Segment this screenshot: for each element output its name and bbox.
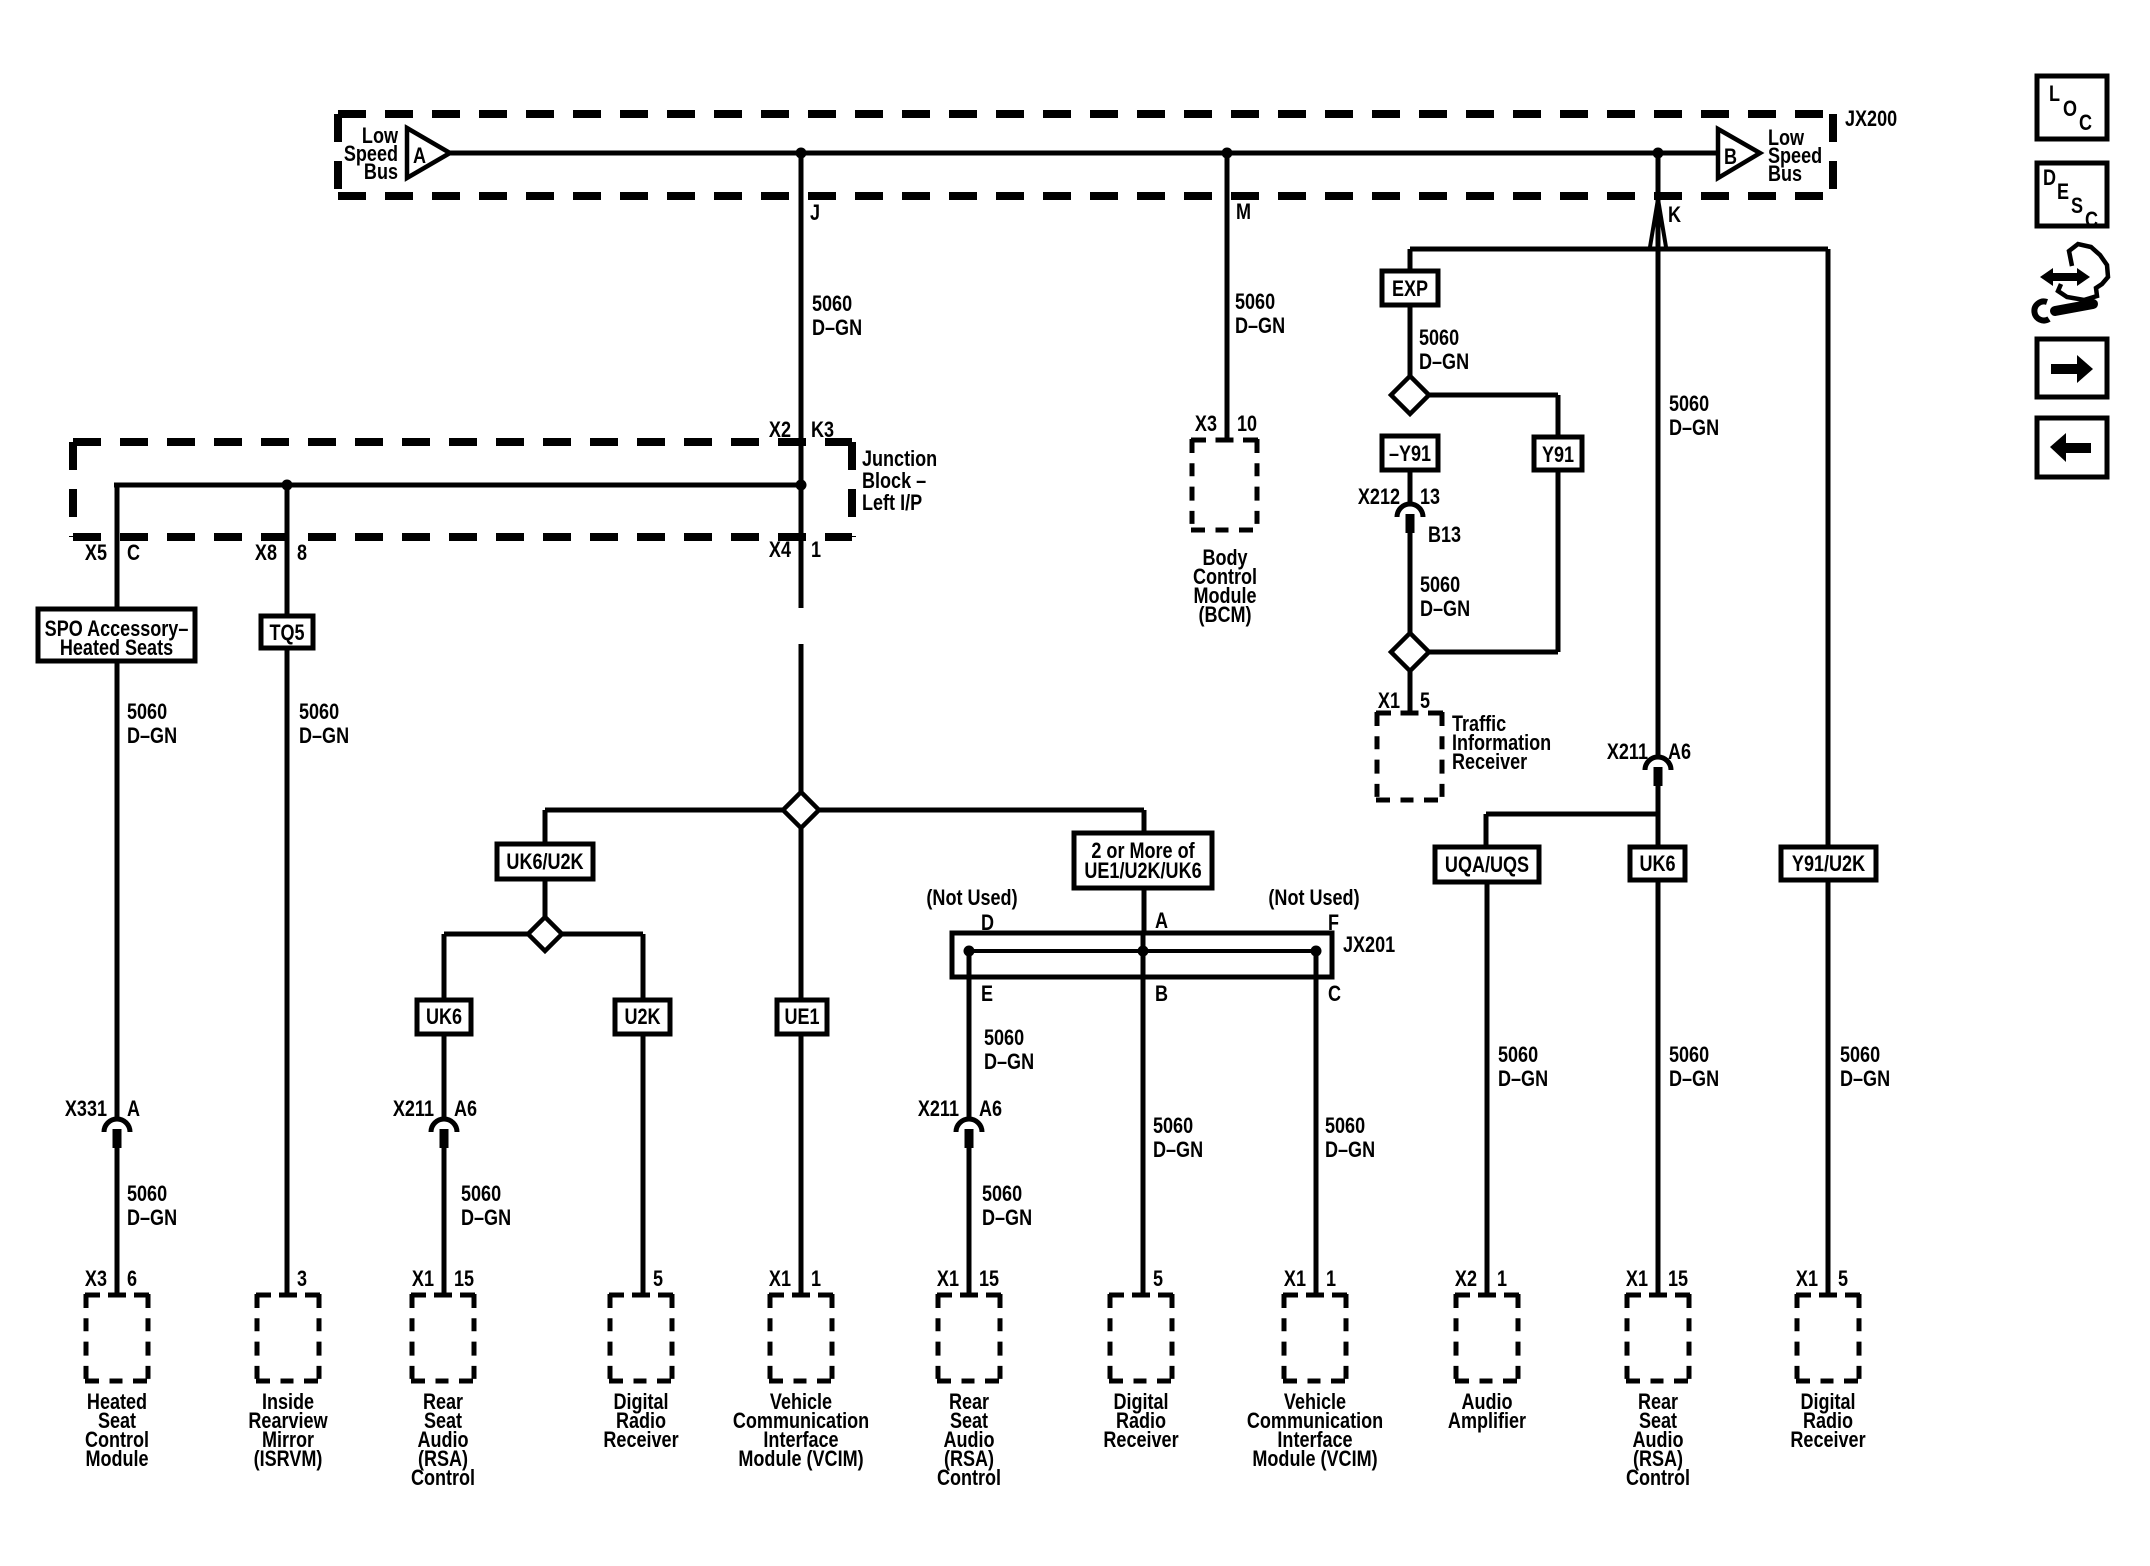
wire X8 drop to TQ5 box <box>285 485 290 616</box>
wire lower splice horizontal <box>444 932 643 937</box>
off-page triangle A <box>407 128 450 178</box>
svg-text:10: 10 <box>1237 412 1257 436</box>
svg-text:Control: Control <box>411 1466 475 1490</box>
wire label 5060 D-GN (B column) <box>1153 1114 1203 1162</box>
wire label 5060 D-GN (X5 column) <box>127 700 177 748</box>
pin label 3 (ISRVM) <box>297 1267 307 1291</box>
wire to Heated Seat Control Module <box>115 1148 120 1296</box>
svg-text:O: O <box>2063 97 2077 121</box>
svg-text:TQ5: TQ5 <box>269 621 304 645</box>
svg-text:Receiver: Receiver <box>603 1428 678 1452</box>
svg-text:5060: 5060 <box>1153 1114 1193 1138</box>
wire label 5060 D-GN (RSA middle segment) <box>982 1182 1032 1230</box>
svg-text:5060: 5060 <box>1498 1043 1538 1067</box>
option box UK6 (left) <box>417 1000 471 1034</box>
svg-text:X1: X1 <box>937 1267 959 1291</box>
splice diamond (to Traffic Information Receiver) <box>1391 633 1429 671</box>
splice diamond (UK6/U2K split) <box>528 917 562 951</box>
svg-text:Heated Seats: Heated Seats <box>60 636 173 660</box>
svg-text:5060: 5060 <box>127 700 167 724</box>
wire down to Y91 box <box>1556 395 1561 437</box>
svg-text:X1: X1 <box>1796 1267 1818 1291</box>
splice diamond (EXP branch) <box>1391 376 1429 414</box>
inline connector X212 pin 13 <box>1397 504 1423 533</box>
svg-text:UE1/U2K/UK6: UE1/U2K/UK6 <box>1084 859 1201 883</box>
svg-text:D–GN: D–GN <box>127 724 177 748</box>
module Digital Radio Receiver (right) <box>1796 1294 1860 1382</box>
svg-text:5060: 5060 <box>1840 1043 1880 1067</box>
svg-text:X3: X3 <box>85 1267 107 1291</box>
svg-text:X211: X211 <box>918 1097 959 1121</box>
svg-text:Left I/P: Left I/P <box>862 491 922 515</box>
wire branch to UQA/UQS <box>1486 812 1658 817</box>
svg-text:D: D <box>2043 166 2056 190</box>
pin labels X1 15 (RSA right) <box>1626 1267 1688 1291</box>
svg-text:5060: 5060 <box>812 292 852 316</box>
svg-text:U2K: U2K <box>624 1005 661 1029</box>
svg-text:B: B <box>1155 982 1168 1006</box>
svg-text:Receiver: Receiver <box>1790 1428 1865 1452</box>
svg-text:E: E <box>981 982 993 1006</box>
svg-text:5: 5 <box>1838 1267 1848 1291</box>
svg-text:5060: 5060 <box>299 700 339 724</box>
wire label 5060 D-GN (Y91/U2K column) <box>1840 1043 1890 1091</box>
junction dot JX201 B <box>1138 946 1149 957</box>
wire label 5060 D-GN (E upper) <box>984 1026 1034 1074</box>
wire down to UK6 box <box>442 934 447 1000</box>
svg-text:X2: X2 <box>1455 1267 1477 1291</box>
option box 2 or More of UE1/U2K/UK6 <box>1074 833 1212 888</box>
svg-text:UE1: UE1 <box>784 1005 819 1029</box>
pin labels X212 13 <box>1358 485 1440 509</box>
svg-text:Y91: Y91 <box>1542 443 1574 467</box>
wire SPO to X331 connector <box>115 661 120 1119</box>
svg-text:B13: B13 <box>1428 523 1461 547</box>
svg-text:X1: X1 <box>1284 1267 1306 1291</box>
svg-text:5060: 5060 <box>1325 1114 1365 1138</box>
svg-text:A: A <box>127 1097 140 1121</box>
svg-text:Receiver: Receiver <box>1452 750 1527 774</box>
svg-text:UK6: UK6 <box>1639 852 1675 876</box>
icon button arrow left <box>2037 418 2107 477</box>
module Heated Seat Control Module <box>85 1294 149 1382</box>
text Low Speed Bus (left) <box>344 124 398 184</box>
wire 2-or-more to JX201 pin A <box>1142 888 1147 933</box>
wire label 5060 D-GN (C column) <box>1325 1114 1375 1162</box>
svg-text:UQA/UQS: UQA/UQS <box>1445 853 1529 877</box>
wire label 5060 D-GN (UQA column) <box>1498 1043 1548 1091</box>
svg-text:D–GN: D–GN <box>299 724 349 748</box>
svg-text:1: 1 <box>1326 1267 1336 1291</box>
svg-text:EXP: EXP <box>1392 277 1428 301</box>
icon button DESC <box>2037 163 2107 232</box>
svg-text:D–GN: D–GN <box>1153 1138 1203 1162</box>
wire to RSA control left <box>442 1148 447 1296</box>
connector JX201 bar <box>952 933 1332 977</box>
svg-text:D–GN: D–GN <box>984 1050 1034 1074</box>
wire to Traffic Information Receiver <box>1408 671 1413 714</box>
wire UK6 to X211 connector <box>442 1034 447 1119</box>
wire JX201 E drop <box>967 951 972 1119</box>
option box UK6 (right column) <box>1630 847 1685 880</box>
pin labels X3 6 <box>85 1267 137 1291</box>
pin labels X2 K3 <box>769 418 834 442</box>
off-page triangle B <box>1718 129 1760 178</box>
svg-text:5060: 5060 <box>984 1026 1024 1050</box>
svg-text:1: 1 <box>811 538 821 562</box>
svg-text:D–GN: D–GN <box>812 316 862 340</box>
wire circuit B13 <box>1408 533 1413 671</box>
svg-text:X5: X5 <box>85 541 107 565</box>
svg-text:Block –: Block – <box>862 469 926 493</box>
wire X5 drop to SPO box <box>115 485 120 609</box>
svg-text:X1: X1 <box>1378 689 1400 713</box>
wire splice horizontal <box>545 808 1144 813</box>
wire label 5060 D-GN (J column) <box>812 292 862 340</box>
option box Y91 (right branch) <box>1534 437 1582 470</box>
wire label 5060 D-GN (EXP column) <box>1419 326 1469 374</box>
module Vehicle Communication Interface Module (left) <box>769 1294 833 1382</box>
svg-text:Junction: Junction <box>862 447 937 471</box>
svg-text:X331: X331 <box>65 1097 107 1121</box>
svg-text:–Y91: –Y91 <box>1389 442 1431 466</box>
pin labels X331 A <box>65 1097 140 1121</box>
wire inside junction block <box>114 483 801 488</box>
pin labels X2 1 (Audio Amplifier) <box>1455 1267 1507 1291</box>
svg-text:5060: 5060 <box>1420 573 1460 597</box>
option box TQ5 <box>261 616 313 648</box>
svg-text:13: 13 <box>1420 485 1440 509</box>
svg-text:Bus: Bus <box>1768 162 1802 186</box>
pin labels X1 15 (RSA middle) <box>937 1267 999 1291</box>
pin labels X1 15 (RSA left) <box>412 1267 474 1291</box>
svg-text:(Not Used): (Not Used) <box>926 886 1017 910</box>
svg-text:C: C <box>2079 111 2092 135</box>
option box -Y91 (EXP column) <box>1382 436 1438 470</box>
junction dot JX201 E <box>964 946 975 957</box>
pin labels X8 8 <box>255 541 307 565</box>
svg-text:UK6: UK6 <box>426 1005 462 1029</box>
junction dot J on bus <box>796 148 807 159</box>
svg-text:A6: A6 <box>979 1097 1002 1121</box>
svg-text:X1: X1 <box>412 1267 434 1291</box>
svg-text:15: 15 <box>454 1267 474 1291</box>
wire Y91 branch down <box>1556 470 1561 652</box>
svg-text:Bus: Bus <box>364 160 398 184</box>
module Vehicle Communication Interface Module (right) <box>1283 1294 1347 1382</box>
pin labels X5 C <box>85 541 140 565</box>
svg-text:(BCM): (BCM) <box>1198 603 1251 627</box>
wire node K (bus down to X211) <box>1656 150 1661 757</box>
svg-text:6: 6 <box>127 1267 137 1291</box>
svg-text:D–GN: D–GN <box>1669 416 1719 440</box>
wire down to U2K box <box>641 934 646 1000</box>
wire to EXP box <box>1408 249 1413 271</box>
wire TQ5 to ISRVM <box>285 648 290 1296</box>
svg-text:5: 5 <box>1420 689 1430 713</box>
pin labels X211 A6 (K column) <box>1607 740 1691 764</box>
module Audio Amplifier <box>1455 1294 1519 1382</box>
text Low Speed Bus (right) <box>1768 126 1822 186</box>
option box SPO Accessory Heated Seats <box>38 609 195 661</box>
wire down to 2-or-more box <box>1142 810 1147 834</box>
icon wrench with arrows <box>2034 244 2108 320</box>
wire UK6/U2K to lower diamond <box>543 879 548 951</box>
wire diamond to UE1 box <box>799 828 804 1000</box>
module Traffic Information Receiver dashed box <box>1376 712 1443 801</box>
wire U2K to Digital Radio Receiver <box>641 1034 646 1296</box>
svg-text:15: 15 <box>979 1267 999 1291</box>
option box EXP <box>1382 271 1438 305</box>
svg-text:D–GN: D–GN <box>982 1206 1032 1230</box>
svg-text:C: C <box>1328 982 1341 1006</box>
pin label 5 (DRR left) <box>653 1267 663 1291</box>
wire down to UK6/U2K box <box>543 810 548 844</box>
svg-text:JX200: JX200 <box>1845 107 1897 131</box>
svg-text:Module (VCIM): Module (VCIM) <box>738 1447 863 1471</box>
svg-text:K: K <box>1668 203 1681 227</box>
wire horizontal EXP / Y91 / Y91-U2K branch <box>1410 247 1828 252</box>
text Body Control Module (BCM) <box>1193 546 1257 627</box>
svg-text:5060: 5060 <box>127 1182 167 1206</box>
pin labels X1 1 (VCIM right) <box>1284 1267 1336 1291</box>
option box UQA/UQS <box>1435 847 1539 882</box>
wire JX201 C drop <box>1314 951 1319 1296</box>
junction dot X4 branch <box>796 480 807 491</box>
junction dot JX201 C <box>1311 946 1322 957</box>
wire K below connector <box>1656 786 1661 847</box>
svg-text:B: B <box>1724 145 1737 169</box>
module Rear Seat Audio RSA Control (middle) <box>937 1294 1001 1382</box>
option box U2K <box>615 1000 670 1034</box>
option box Y91/U2K <box>1781 847 1876 880</box>
module Digital Radio Receiver (middle) <box>1109 1294 1173 1382</box>
wire UE1 to VCIM <box>799 1034 804 1296</box>
icon button LOC <box>2037 76 2107 139</box>
text Traffic Information Receiver <box>1452 712 1551 774</box>
pin labels X1 5 (DRR right) <box>1796 1267 1848 1291</box>
junction dot K on bus <box>1653 148 1664 159</box>
svg-text:E: E <box>2057 180 2069 204</box>
pin labels X4 1 <box>769 538 821 562</box>
wire -Y91 to X212 connector <box>1408 470 1413 504</box>
icon button arrow right <box>2037 339 2107 397</box>
wire UQA/UQS to Audio Amplifier <box>1485 882 1490 1296</box>
svg-text:C: C <box>127 541 140 565</box>
inline connector X211 pin A6 (RSA left) <box>431 1119 457 1148</box>
svg-text:Amplifier: Amplifier <box>1448 1409 1526 1433</box>
wire label 5060 D-GN (heated seat segment) <box>127 1182 177 1230</box>
wire -Y91 to splice diamond <box>799 644 804 828</box>
wire label 5060 D-GN (K column) <box>1669 392 1719 440</box>
wire UK6 to RSA control (right) <box>1656 880 1661 1296</box>
wire label 5060 D-GN (RSA left segment) <box>461 1182 511 1230</box>
svg-text:X1: X1 <box>769 1267 791 1291</box>
svg-text:J: J <box>810 201 820 225</box>
arrow up at node K <box>1650 197 1667 250</box>
module Inside Rearview Mirror ISRVM <box>256 1294 320 1382</box>
svg-text:(Not Used): (Not Used) <box>1268 886 1359 910</box>
wire diamond to Y91 branch right <box>1410 393 1558 398</box>
svg-text:C: C <box>2085 208 2098 232</box>
svg-text:5060: 5060 <box>461 1182 501 1206</box>
svg-text:A: A <box>413 144 426 168</box>
svg-text:D–GN: D–GN <box>1840 1067 1890 1091</box>
wire to RSA control middle <box>967 1148 972 1296</box>
wire JX201 A through bar <box>1141 933 1146 1296</box>
svg-text:5060: 5060 <box>1235 290 1275 314</box>
svg-text:Control: Control <box>937 1466 1001 1490</box>
wire node J drop (bus to junction block) <box>799 150 804 608</box>
svg-text:(ISRVM): (ISRVM) <box>254 1447 323 1471</box>
wire Y91/U2K column drop <box>1826 249 1831 847</box>
svg-text:X4: X4 <box>769 538 792 562</box>
svg-text:A6: A6 <box>1668 740 1691 764</box>
svg-text:X211: X211 <box>1607 740 1648 764</box>
wire Y91 branch to lower diamond <box>1410 650 1558 655</box>
wire low speed bus <box>450 151 1718 156</box>
inline connector X331 pin A <box>104 1119 130 1148</box>
svg-text:3: 3 <box>297 1267 307 1291</box>
svg-text:X3: X3 <box>1195 412 1217 436</box>
inline connector X211 pin A6 (K column) <box>1645 757 1671 786</box>
svg-text:5060: 5060 <box>1419 326 1459 350</box>
svg-text:X1: X1 <box>1626 1267 1648 1291</box>
splice diamond (UE1 tree) <box>783 792 819 828</box>
pin labels X1 1 (VCIM left) <box>769 1267 821 1291</box>
svg-text:X211: X211 <box>393 1097 434 1121</box>
svg-text:JX201: JX201 <box>1343 933 1395 957</box>
wire label 5060 D-GN (UK6 right column) <box>1669 1043 1719 1091</box>
svg-text:D–GN: D–GN <box>461 1206 511 1230</box>
pin labels X3 10 <box>1195 412 1257 436</box>
wire node M drop (bus to BCM) <box>1225 150 1230 441</box>
svg-text:A: A <box>1155 909 1168 933</box>
svg-text:1: 1 <box>811 1267 821 1291</box>
svg-text:5060: 5060 <box>982 1182 1022 1206</box>
inline connector X211 pin A6 (RSA middle) <box>956 1119 982 1148</box>
svg-text:X212: X212 <box>1358 485 1400 509</box>
svg-text:Y91/U2K: Y91/U2K <box>1792 852 1866 876</box>
pin labels X211 A6 (RSA left) <box>393 1097 477 1121</box>
pin labels X211 A6 (RSA middle) <box>918 1097 1002 1121</box>
svg-text:D–GN: D–GN <box>1420 597 1470 621</box>
svg-text:UK6/U2K: UK6/U2K <box>506 850 584 874</box>
module Rear Seat Audio RSA Control (left) <box>411 1294 475 1382</box>
svg-text:8: 8 <box>297 541 307 565</box>
module BCM dashed box <box>1191 439 1258 531</box>
svg-text:D–GN: D–GN <box>1419 350 1469 374</box>
svg-text:D–GN: D–GN <box>127 1206 177 1230</box>
wire Y91/U2K to Digital Radio Receiver (right) <box>1826 880 1831 1296</box>
junction dot M on bus <box>1222 148 1233 159</box>
svg-text:15: 15 <box>1668 1267 1688 1291</box>
svg-text:M: M <box>1236 200 1251 224</box>
svg-text:5060: 5060 <box>1669 392 1709 416</box>
wire label 5060 D-GN (X8 column) <box>299 700 349 748</box>
svg-text:5: 5 <box>1153 1267 1163 1291</box>
wire label 5060 D-GN (B13 segment) <box>1420 573 1470 621</box>
svg-text:D–GN: D–GN <box>1325 1138 1375 1162</box>
wire label 5060 D-GN (M column) <box>1235 290 1285 338</box>
module Rear Seat Audio RSA Control (right) <box>1626 1294 1690 1382</box>
svg-text:Module: Module <box>85 1447 148 1471</box>
module Digital Radio Receiver (left) <box>609 1294 673 1382</box>
svg-text:D–GN: D–GN <box>1235 314 1285 338</box>
junction block - Left I/P dashed box <box>73 442 852 537</box>
svg-text:A6: A6 <box>454 1097 477 1121</box>
option box UE1 <box>777 1000 827 1034</box>
svg-text:X8: X8 <box>255 541 277 565</box>
svg-text:5060: 5060 <box>1669 1043 1709 1067</box>
svg-text:S: S <box>2071 194 2083 218</box>
option box UK6/U2K <box>497 844 593 879</box>
svg-text:L: L <box>2049 82 2060 106</box>
pin labels X1 5 (TIR) <box>1378 689 1430 713</box>
wire down to UQA/UQS box <box>1484 814 1489 847</box>
svg-text:D–GN: D–GN <box>1498 1067 1548 1091</box>
svg-text:5: 5 <box>653 1267 663 1291</box>
wire EXP to splice diamond <box>1408 305 1413 414</box>
svg-text:1: 1 <box>1497 1267 1507 1291</box>
pin label 5 (DRR middle) <box>1153 1267 1163 1291</box>
junction dot X8 branch <box>282 480 293 491</box>
svg-text:Module (VCIM): Module (VCIM) <box>1252 1447 1377 1471</box>
connector JX200 dashed box (Low Speed Bus bar) <box>338 114 1833 196</box>
text Junction Block - Left I/P <box>862 447 937 515</box>
svg-text:D–GN: D–GN <box>1669 1067 1719 1091</box>
svg-text:Control: Control <box>1626 1466 1690 1490</box>
svg-text:Receiver: Receiver <box>1103 1428 1178 1452</box>
